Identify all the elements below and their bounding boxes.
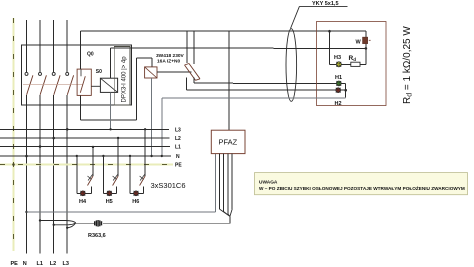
breaker S301 H4 unit bbox=[76, 146, 95, 194]
wire lamp return (grey) bbox=[161, 98, 346, 157]
svg-text:W: W bbox=[356, 40, 362, 46]
switch W1 labels bbox=[156, 53, 185, 65]
wire lamps H1 H2 common bbox=[341, 83, 346, 97]
svg-text:3W418 230V: 3W418 230V bbox=[156, 53, 185, 59]
wire PFAZ cable bundle bbox=[219, 154, 232, 224]
wire H3 row bbox=[330, 63, 366, 65]
wire PFAZ N (grey) bbox=[25, 154, 215, 213]
node junction wire1 / lamp-box loop bbox=[328, 30, 331, 33]
wire switch W1 to lamp H1 bbox=[194, 78, 336, 84]
wire switch W1 to lamp H2 bbox=[186, 78, 335, 91]
svg-text:S0: S0 bbox=[96, 69, 102, 75]
switch Q0 pole contacts and blades bbox=[25, 72, 74, 94]
wire N riser bbox=[26, 20, 28, 254]
cable YKY ellipse bbox=[286, 29, 297, 102]
bottom conductor labels bbox=[11, 261, 69, 267]
bus L1 bbox=[0, 145, 181, 151]
node L1 tap bbox=[39, 145, 42, 148]
node L3 tap bbox=[66, 128, 69, 131]
DPX3 strip box bbox=[114, 47, 130, 106]
svg-text:UWAGA: UWAGA bbox=[259, 180, 278, 186]
lamp H1 bbox=[335, 75, 342, 86]
svg-text:PE: PE bbox=[175, 163, 182, 169]
resistor Rd value label (rotated) bbox=[402, 26, 414, 104]
lamp H4 bbox=[79, 191, 87, 205]
svg-text:H4: H4 bbox=[79, 199, 87, 205]
svg-text:3xS301C6: 3xS301C6 bbox=[151, 181, 186, 190]
wire lamp-box loop right vertical with W bbox=[365, 31, 367, 64]
bus N bbox=[0, 154, 180, 160]
svg-text:L2: L2 bbox=[175, 136, 181, 142]
wire trip bus (wire1 y=31) bbox=[81, 30, 366, 32]
breaker S301 H6 unit bbox=[129, 128, 147, 193]
wire L2 riser bbox=[53, 20, 55, 254]
switch Q0 enclosure box bbox=[22, 45, 132, 105]
wire lamp-box loop left vertical bbox=[329, 31, 331, 64]
lamp H5 bbox=[106, 191, 113, 205]
wire funnel to PFAZ via choke bbox=[76, 222, 230, 224]
svg-text:YKY 5x1,5: YKY 5x1,5 bbox=[312, 1, 339, 7]
PE conductor (green/yellow dashed vertical) bbox=[13, 18, 15, 251]
choke R363,6 bbox=[88, 220, 106, 239]
svg-text:L3: L3 bbox=[175, 127, 181, 133]
svg-text:H6: H6 bbox=[132, 199, 139, 205]
svg-text:H3: H3 bbox=[334, 55, 341, 61]
wire phase pickup funnel bbox=[39, 219, 76, 229]
lamp H3 bbox=[334, 55, 341, 67]
wire PFAZ feed drop bbox=[228, 31, 230, 130]
breaker S301 H5 unit bbox=[102, 137, 119, 194]
svg-text:DPX3-I 400 |> 4p: DPX3-I 400 |> 4p bbox=[122, 56, 128, 103]
wire L1 riser bbox=[39, 20, 41, 254]
svg-text:Rd = 1 kΩ/0,25 W: Rd = 1 kΩ/0,25 W bbox=[402, 26, 414, 104]
svg-text:Q0: Q0 bbox=[87, 52, 94, 58]
svg-text:N: N bbox=[176, 154, 180, 160]
svg-text:H2: H2 bbox=[335, 101, 342, 107]
svg-text:16A IZ+N0: 16A IZ+N0 bbox=[157, 59, 180, 65]
lamp H2 bbox=[335, 88, 342, 107]
wire control feed (wire2 y=48) bbox=[111, 47, 366, 49]
svg-text:Rd: Rd bbox=[349, 55, 357, 62]
svg-text:PE: PE bbox=[11, 261, 19, 267]
node PE tap bbox=[12, 163, 15, 166]
label 3xS301C6 bbox=[151, 181, 186, 190]
switch W1 (2-pole control switch) bbox=[185, 31, 201, 80]
wire L3 riser bbox=[66, 20, 68, 254]
node N tap bbox=[25, 155, 28, 158]
svg-text:L1: L1 bbox=[37, 261, 43, 267]
fuse F2 bbox=[145, 67, 157, 78]
svg-text:N: N bbox=[23, 261, 27, 267]
lamp box enclosure bbox=[317, 22, 387, 106]
wire S0 bottom return bbox=[81, 58, 152, 120]
wire fuse F1 bottom tap to L3 bus bbox=[109, 92, 111, 130]
bus L2 bbox=[0, 136, 181, 142]
svg-text:PFAZ: PFAZ bbox=[219, 138, 238, 147]
wire fuse F2 bottom to N bus bbox=[150, 78, 152, 157]
relay PFAZ box bbox=[211, 130, 245, 153]
wire fuse F1 top to wire2 bbox=[110, 48, 112, 78]
svg-text:L2: L2 bbox=[50, 261, 56, 267]
node junction H2 common bbox=[344, 89, 347, 92]
svg-text:H5: H5 bbox=[106, 199, 113, 205]
svg-text:W – PO ZBICIU SZYBKI OSŁONOWEJ: W – PO ZBICIU SZYBKI OSŁONOWEJ POZOSTAJE… bbox=[259, 185, 465, 191]
cable label YKY 5x1,5 leader bbox=[291, 1, 348, 29]
note box UWAGA bbox=[255, 173, 468, 195]
wire fuse F2 to switch W1 bbox=[157, 71, 192, 73]
switch W (break-glass) bbox=[356, 37, 371, 45]
node L2 tap bbox=[52, 137, 55, 140]
trip unit S0 bbox=[77, 69, 102, 95]
lamp H6 bbox=[132, 191, 139, 205]
switch Q0 mechanical linkage bbox=[23, 83, 83, 85]
svg-text:L3: L3 bbox=[63, 261, 69, 267]
bus L3 bbox=[0, 127, 181, 133]
fuse F1 bbox=[91, 78, 117, 92]
node junction wire2 / W bbox=[365, 47, 368, 50]
resistor Rd bbox=[349, 55, 361, 66]
svg-text:L1: L1 bbox=[175, 145, 181, 151]
svg-text:R363,6: R363,6 bbox=[88, 233, 106, 239]
wire S0 coil to trip bus bbox=[80, 31, 82, 69]
svg-text:H1: H1 bbox=[335, 75, 342, 81]
bus PE (green/yellow dashed) bbox=[0, 163, 182, 169]
